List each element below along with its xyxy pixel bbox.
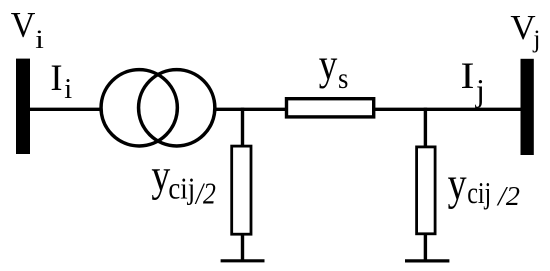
svg-text:I: I <box>461 55 475 96</box>
svg-text:cij: cij <box>168 171 195 206</box>
svg-text:j: j <box>475 73 485 108</box>
svg-text:y: y <box>448 159 468 210</box>
svg-text:i: i <box>35 25 44 54</box>
svg-text:I: I <box>50 57 62 98</box>
svg-text:cij: cij <box>467 175 491 210</box>
svg-text:V: V <box>11 5 36 45</box>
svg-text:V: V <box>510 8 535 47</box>
svg-text:j: j <box>532 25 540 53</box>
svg-text:i: i <box>64 74 72 105</box>
svg-text:/2: /2 <box>194 175 216 210</box>
svg-text:/2: /2 <box>496 180 520 211</box>
svg-text:s: s <box>338 63 348 95</box>
svg-text:y: y <box>319 40 338 89</box>
